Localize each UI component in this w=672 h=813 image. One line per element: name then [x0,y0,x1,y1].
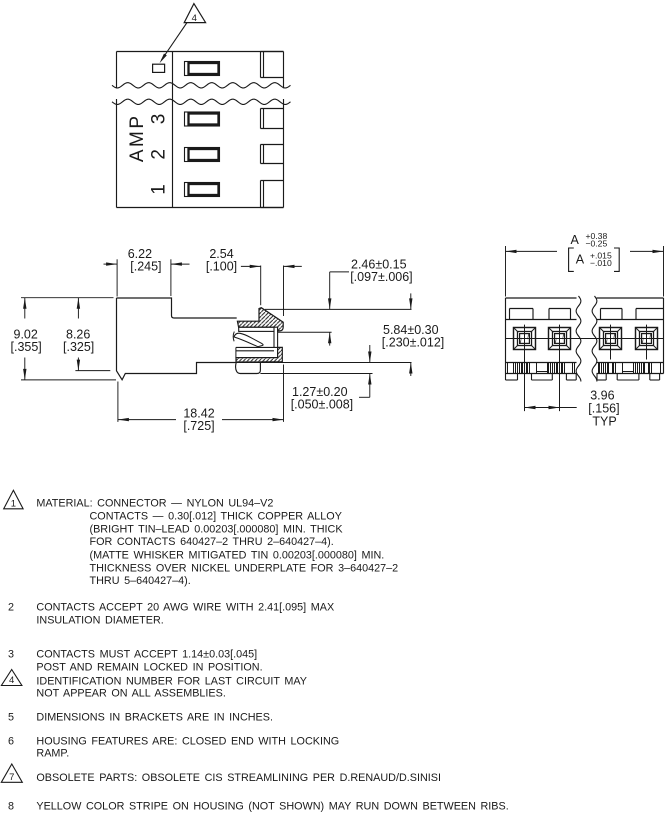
svg-text:3.96: 3.96 [590,389,614,403]
svg-text:THICKNESS OVER NICKEL UNDER: THICKNESS OVER NICKEL UNDERPLATE FOR 3–6… [90,563,399,575]
svg-text:7: 7 [9,772,14,783]
right rib tab circuit 4 (top view) [261,52,284,78]
svg-text:CONTACTS — 0.30[.012] THICK: CONTACTS — 0.30[.012] THICK COPPER ALLOY [90,510,342,522]
contact cavity bottom wall lines [236,346,278,348]
svg-text:1: 1 [11,498,16,509]
svg-text:HOUSING FEATURES ARE: CLOSE: HOUSING FEATURES ARE: CLOSED END WITH LO… [36,736,339,748]
top view housing outline [117,52,284,208]
contact vertical centerline [610,325,612,360]
svg-text:8: 8 [8,801,14,813]
extension line from housing bottom edge [260,373,372,375]
note 6 [8,736,339,760]
identification mark rectangle (circuit 4) [153,64,165,72]
svg-text:[.725]: [.725] [183,419,214,433]
note 4 flag triangle [1,670,22,686]
svg-text:INSULATION DIAMETER.: INSULATION DIAMETER. [36,615,163,627]
svg-text:IDENTIFICATION NUMBER FOR L: IDENTIFICATION NUMBER FOR LAST CIRCUIT M… [36,676,307,688]
note 1 flag triangle [4,490,23,509]
note 4 text [36,676,307,700]
svg-text:[.245]: [.245] [130,260,161,274]
extension line from contact top edge [265,308,412,310]
dimension 6.22 [.245] [104,247,190,297]
svg-text:FOR CONTACTS 640427–2 THRU: FOR CONTACTS 640427–2 THRU 2–640427–4). [90,536,334,548]
svg-text:3: 3 [149,114,170,125]
dimension 8.26 [.325] [63,298,110,371]
svg-text:AMP: AMP [127,113,148,162]
right rib tab circuit 2 (top view) [261,145,284,164]
svg-text:NOT APPEAR ON ALL ASSEMBLI: NOT APPEAR ON ALL ASSEMBLIES. [36,687,225,699]
front view top rib notch [549,309,571,320]
dimension 1.27±0.20 [.050±.008] [291,345,372,411]
mounting foot [566,374,576,381]
right rib tab circuit 1 (top view) [261,181,284,208]
front view housing outline [506,298,664,374]
contact slot circuit 3 (top view) [185,112,220,126]
mounting foot [617,374,639,381]
contact cavity square 3 (front view) [600,328,622,350]
front view top rib notch [601,309,623,320]
contact slot circuit 2 (top view) [185,148,220,162]
note 5 [8,711,273,723]
contact cavity right wall lines [273,331,275,347]
svg-text:MATERIAL: CONNECTOR — NYLON: MATERIAL: CONNECTOR — NYLON UL94–V2 [36,497,273,509]
front view top rib notch [510,309,534,320]
bottom rib strips (edges) [508,363,661,374]
contact cavity top wall inner (white) [239,327,274,331]
svg-text:TYP: TYP [592,414,616,428]
note flag triangle 4 with leader arrow [160,4,206,64]
svg-text:−.010: −.010 [590,258,612,268]
svg-text:6: 6 [8,736,14,748]
svg-text:[.050±.008]: [.050±.008] [291,397,353,411]
mounting foot [506,374,518,381]
note 3 [8,649,263,674]
mounting foot [597,374,606,381]
contact cavity square 4 (front view) [636,328,658,350]
svg-text:[.325]: [.325] [63,340,94,354]
svg-text:CONTACTS ACCEPT 20 AWG WIR: CONTACTS ACCEPT 20 AWG WIRE WITH 2.41[.0… [36,602,334,614]
solder post below contact [236,362,261,374]
contact slot circuit 1 (top view) [185,183,220,197]
svg-text:[.355]: [.355] [11,340,42,354]
svg-text:[.230±.012]: [.230±.012] [382,335,444,349]
svg-text:(BRIGHT TIN–LEAD 0.00203[.00: (BRIGHT TIN–LEAD 0.00203[.000080] MIN. T… [90,524,344,536]
mounting foot [650,374,660,381]
svg-text:A: A [571,233,580,247]
svg-text:4: 4 [9,675,14,686]
svg-text:DIMENSIONS IN BRACKETS ARE: DIMENSIONS IN BRACKETS ARE IN INCHES. [36,711,273,723]
svg-text:3: 3 [8,649,14,661]
svg-text:4: 4 [192,13,197,24]
dimension 9.02 [.355] [11,298,117,380]
note 1 text [36,497,398,587]
note 2 [8,602,334,627]
note 7 flag triangle [1,764,22,782]
svg-text:CONTACTS MUST ACCEPT 1.14±0: CONTACTS MUST ACCEPT 1.14±0.03[.045] [36,649,257,661]
dimension A with tolerances [506,231,664,297]
front view bottom rib band lines [506,362,577,364]
contact spring lance [233,332,263,347]
dimension 3.96 [.156] TYP [525,389,620,429]
front view top rib notch [636,309,664,320]
front view break (wavy) lines [576,296,581,382]
svg-text:2: 2 [8,602,14,614]
svg-text:[.100]: [.100] [206,260,237,274]
bottom rib strips [600,363,634,374]
contact bottom wall and right column (hatched) [236,347,282,362]
front view top rib gap line [506,319,577,321]
extension line from cavity top inner wall [278,331,332,333]
contact vertical centerline [524,325,526,412]
contact cavity square 2 (front view) [549,328,571,350]
mounting foot [532,374,553,381]
dimension 18.42 [.725] [118,365,284,434]
svg-text:OBSOLETE PARTS: OBSOLETE CI: OBSOLETE PARTS: OBSOLETE CIS STREAMLININ… [36,772,441,784]
svg-text:−0.25: −0.25 [586,238,608,248]
svg-text:[.097±.006]: [.097±.006] [350,270,412,284]
contact vertical centerline [646,325,648,360]
svg-text:A: A [576,252,585,266]
svg-text:THRU 5–640427–4).: THRU 5–640427–4). [90,575,191,587]
contact cross-section: locking ramp and top wall (hatched) [237,308,283,331]
side view housing outline [117,298,237,380]
bottom rib strips [514,363,548,374]
svg-text:RAMP.: RAMP. [36,747,69,759]
bottom rib strips [636,363,652,374]
svg-text:YELLOW COLOR STRIPE ON HOU: YELLOW COLOR STRIPE ON HOUSING (NOT SHOW… [36,801,508,813]
svg-text:POST AND REMAIN LOCKED IN: POST AND REMAIN LOCKED IN POSITION. [36,662,262,674]
note 8 [8,801,509,813]
contact cavity square 1 (front view) [514,328,536,350]
bottom rib strips [549,363,565,374]
contact vertical centerline [559,325,561,412]
top view break (wavy) lines [112,83,291,88]
front view horizontal centerline [506,338,664,340]
contact slot circuit 4 (top view) [185,62,220,76]
right rib tab circuit 3 (top view) [261,109,284,129]
dimension 2.54 [.100] [206,247,302,316]
svg-text:1: 1 [149,184,170,195]
svg-text:(MATTE WHISKER MITIGATED TI: (MATTE WHISKER MITIGATED TIN 0.00203[.00… [90,549,385,561]
extension line from housing shelf [236,362,412,364]
dimension 2.46±0.15 [.097±.006] [328,258,413,346]
svg-text:2: 2 [149,149,170,160]
svg-text:5: 5 [8,711,14,723]
dimension 5.84±0.30 [.230±.012] [382,293,444,376]
